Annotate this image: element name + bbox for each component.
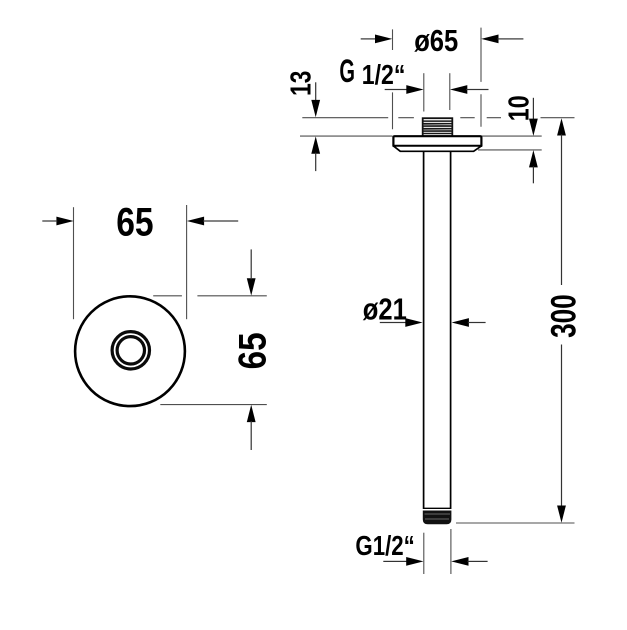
extension line: bottom G1/2 right <box>450 529 452 574</box>
extension line: flange bottom extended right <box>478 149 542 151</box>
side view: flange body <box>393 136 481 146</box>
extension line: G1/2 thread left <box>423 73 425 111</box>
svg-text:ø65: ø65 <box>414 23 458 58</box>
dimension phi65: left arrow <box>361 35 393 44</box>
extension line: bottom G1/2 left <box>423 533 425 574</box>
dimension G1/2 top: right arrow <box>450 85 489 94</box>
front view: boss inner ring <box>117 337 144 364</box>
dimension 65 horizontal: left arrow <box>42 217 73 226</box>
dimension 65 vertical: bottom arrow <box>247 405 256 450</box>
side view: ceiling dashed line right of thread <box>460 117 501 119</box>
extension line: phi65 right (upper and lower segments) <box>480 28 482 127</box>
front view: boss outer ring <box>112 332 149 369</box>
dimension 13: top arrow <box>311 82 320 117</box>
extension line right of circle <box>186 205 188 319</box>
extension line: flange top extended left <box>300 135 393 137</box>
dimension phi21: left arrow <box>380 318 423 327</box>
side view: top thread block <box>423 118 453 136</box>
dimension phi65: right arrow <box>481 35 523 44</box>
extension line: pipe bottom extended right <box>456 522 575 524</box>
dimension 13: bottom arrow <box>311 136 320 171</box>
svg-text:G: G <box>339 53 355 89</box>
extension line top of 300 dimension <box>541 117 575 119</box>
extension line above-right of circle (top of 65 vertical) <box>153 295 267 297</box>
svg-text:300: 300 <box>544 294 583 338</box>
side view: flange lower cone <box>393 146 481 151</box>
dimension 10: top arrow <box>529 98 538 136</box>
svg-text:13: 13 <box>285 71 317 96</box>
dimension 300: vertical line with arrows <box>557 118 566 523</box>
side view: pipe walls <box>424 151 451 509</box>
svg-text:G1/2“: G1/2“ <box>355 530 414 561</box>
dimension 10: bottom arrow <box>529 150 538 183</box>
svg-text:65: 65 <box>232 332 275 369</box>
extension line left of circle <box>73 207 75 319</box>
svg-text:10: 10 <box>504 95 536 121</box>
dimension phi21: right arrow <box>452 318 486 327</box>
extension line: G1/2 thread right <box>449 73 451 110</box>
dimension G1/2 top: left arrow <box>385 85 424 94</box>
svg-text:65: 65 <box>116 200 153 244</box>
extension line: phi65 left (upper and lower segments) <box>392 29 394 129</box>
svg-text:1/2“: 1/2“ <box>362 59 406 90</box>
dimension 65 horizontal: right arrow <box>187 217 238 226</box>
side view: ceiling dashed line left of thread <box>302 117 414 119</box>
side view: bottom thread block <box>423 508 452 524</box>
dimension G1/2 bottom: right arrow <box>451 557 487 566</box>
dimension G1/2 bottom: left arrow <box>383 557 423 566</box>
front view: flange outer circle <box>75 296 185 406</box>
dimension 65 vertical: top arrow <box>247 249 256 295</box>
extension line: flange top extended right <box>482 135 542 137</box>
extension line below-right of circle (bottom of 65 vertical) <box>160 404 266 406</box>
svg-text:ø21: ø21 <box>363 292 407 327</box>
